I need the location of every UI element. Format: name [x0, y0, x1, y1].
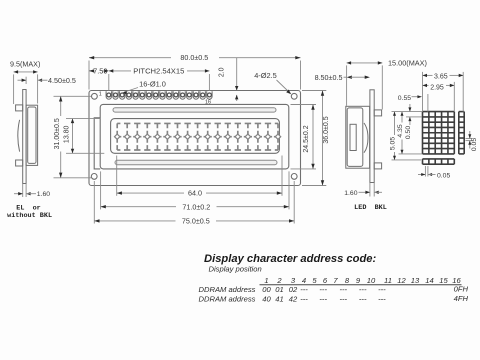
svg-text:1: 1	[264, 276, 268, 285]
svg-text:15: 15	[439, 276, 448, 285]
front view PCB outline	[89, 91, 301, 186]
dimension 24.5±0.2 bezel height	[291, 104, 317, 106]
dimension 0.55 dot width	[427, 94, 429, 112]
svg-text:40: 40	[262, 294, 271, 303]
svg-text:---: ---	[378, 294, 386, 303]
dimension 1.60 PCB thickness left view	[22, 184, 24, 198]
display window outline	[111, 119, 280, 154]
mounting hole bottom-left	[91, 174, 97, 180]
right side view LCD module outer body	[346, 106, 370, 168]
svg-text:PITCH2.54X15: PITCH2.54X15	[133, 67, 184, 76]
svg-text:Display character address code: Display character address code:	[204, 253, 377, 265]
svg-text:64.0: 64.0	[188, 189, 202, 198]
dimension 4.35 char height	[399, 153, 423, 155]
bezel metal frame outline	[100, 104, 289, 168]
character cell grid 16x2	[115, 123, 281, 150]
left side view bottom tab	[16, 160, 23, 166]
svg-text:---: ---	[340, 294, 348, 303]
dimension 0.50 dot height	[406, 116, 422, 118]
svg-text:41: 41	[275, 294, 283, 303]
svg-text:24.5±0.2: 24.5±0.2	[303, 125, 310, 152]
mounting hole top-left	[92, 93, 98, 99]
svg-text:4.35: 4.35	[397, 124, 404, 137]
left side view LCD module outer body	[26, 105, 37, 165]
dimension 3.65 char pitch	[422, 72, 424, 112]
svg-text:4.50±0.5: 4.50±0.5	[48, 76, 76, 85]
mounting hole top-right	[291, 93, 297, 99]
dimension 5.05 char vertical pitch	[392, 111, 423, 113]
table row DDRAM address 00-0FH	[199, 284, 469, 294]
svg-text:DDRAM address: DDRAM address	[199, 285, 256, 294]
svg-text:75.0±0.5: 75.0±0.5	[182, 217, 210, 226]
dot matrix separated bottom row	[423, 159, 455, 164]
right side view dome arc	[364, 123, 368, 153]
dot matrix separated right column	[459, 112, 464, 154]
svg-text:12: 12	[397, 276, 406, 285]
mounting hole bottom-right	[291, 174, 297, 180]
svg-text:1.60: 1.60	[344, 190, 357, 197]
svg-text:LED BKL: LED BKL	[354, 204, 387, 212]
svg-text:36.0±0.5: 36.0±0.5	[323, 116, 330, 143]
svg-text:31.00±0.5: 31.00±0.5	[54, 118, 61, 149]
svg-text:13.80: 13.80	[64, 125, 71, 143]
dimension 75.0±0.5 hole spacing	[93, 181, 95, 224]
svg-text:---: ---	[300, 285, 308, 294]
svg-text:10: 10	[367, 276, 376, 285]
left side view PCB board	[23, 90, 26, 184]
svg-text:16-Ø1.0: 16-Ø1.0	[139, 80, 166, 89]
svg-text:15.00(MAX): 15.00(MAX)	[388, 58, 427, 67]
svg-text:without BKL: without BKL	[7, 212, 52, 220]
dimension 15.00(MAX)	[346, 65, 348, 105]
right side view LED backlight rect	[350, 124, 356, 150]
dimension 2.0 pin row offset	[236, 58, 238, 91]
left side view bezel lip inner rect	[28, 107, 36, 163]
svg-text:80.0±0.5: 80.0±0.5	[180, 53, 208, 62]
svg-text:3.65: 3.65	[434, 73, 448, 80]
svg-text:1: 1	[99, 91, 102, 97]
svg-text:---: ---	[340, 285, 348, 294]
svg-text:14: 14	[425, 276, 433, 285]
svg-text:8.50±0.5: 8.50±0.5	[315, 73, 343, 82]
dimension 13.80 window height	[66, 118, 100, 120]
svg-text:0FH: 0FH	[454, 284, 469, 293]
svg-text:7.50: 7.50	[93, 67, 107, 76]
svg-text:02: 02	[289, 285, 298, 294]
bottom reflector bar	[115, 160, 277, 164]
svg-text:0.05: 0.05	[471, 138, 478, 151]
dimension 7.50 pin1 offset	[108, 74, 110, 91]
dimension 71.0±0.2 bezel width	[100, 171, 102, 209]
dimension 80.0±0.5 overall width	[88, 61, 90, 90]
left side view top tab	[16, 105, 23, 111]
svg-text:Display position: Display position	[209, 264, 262, 273]
right side view top tab	[374, 110, 381, 116]
dimension 4.50±0.5	[25, 77, 27, 84]
bezel left protrusion tab	[94, 118, 100, 169]
pin header hole circles 1-16	[107, 93, 211, 97]
dimension 1.60 PCB thickness right view	[369, 183, 371, 197]
pin header pads 1-16	[106, 91, 212, 99]
svg-text:9.5(MAX): 9.5(MAX)	[10, 60, 40, 69]
svg-text:---: ---	[359, 285, 367, 294]
svg-text:1.60: 1.60	[37, 191, 50, 198]
svg-text:2.0: 2.0	[219, 67, 226, 77]
svg-text:---: ---	[300, 294, 308, 303]
table row DDRAM address 40-4FH	[199, 294, 469, 303]
svg-text:13: 13	[411, 276, 420, 285]
svg-text:2.95: 2.95	[430, 85, 444, 92]
svg-text:---: ---	[359, 294, 367, 303]
dimension 36.0±0.5 PCB height	[302, 90, 326, 92]
svg-text:---: ---	[319, 294, 327, 303]
svg-text:4-Ø2.5: 4-Ø2.5	[254, 71, 277, 80]
svg-text:---: ---	[319, 285, 327, 294]
top reflector bar	[113, 108, 276, 112]
dimension 64.0 display area width	[116, 156, 118, 196]
dimension 0.05 horizontal dot gap	[424, 166, 426, 177]
right side view PCB board	[370, 90, 374, 183]
table header underline	[260, 284, 462, 286]
svg-text:11: 11	[384, 276, 392, 285]
right side view bezel lip inner rect	[347, 108, 363, 166]
dimension PITCH2.54X15	[208, 74, 210, 91]
right side view bottom tab	[374, 163, 381, 169]
svg-text:---: ---	[378, 285, 386, 294]
svg-text:4FH: 4FH	[454, 294, 469, 303]
svg-text:4: 4	[302, 276, 306, 285]
dimension 2.95 char width	[453, 82, 455, 112]
table header row numbers 1-16	[264, 276, 461, 285]
svg-text:2: 2	[276, 276, 282, 285]
svg-text:01: 01	[275, 285, 283, 294]
svg-text:71.0±0.2: 71.0±0.2	[182, 202, 210, 211]
left side view EL film arc	[18, 120, 20, 152]
svg-text:0.05: 0.05	[437, 172, 450, 179]
svg-text:42: 42	[289, 294, 298, 303]
svg-text:0.55: 0.55	[398, 95, 411, 102]
dimension 31.00±0.5 hole vertical spacing	[54, 95, 92, 97]
svg-text:DDRAM address: DDRAM address	[199, 294, 256, 303]
svg-text:0.50: 0.50	[405, 126, 412, 139]
svg-text:00: 00	[262, 285, 271, 294]
svg-text:5.05: 5.05	[390, 137, 397, 150]
dimension 0.05 vertical dot gap	[466, 138, 473, 140]
dot matrix main grid 5x8	[423, 112, 455, 154]
